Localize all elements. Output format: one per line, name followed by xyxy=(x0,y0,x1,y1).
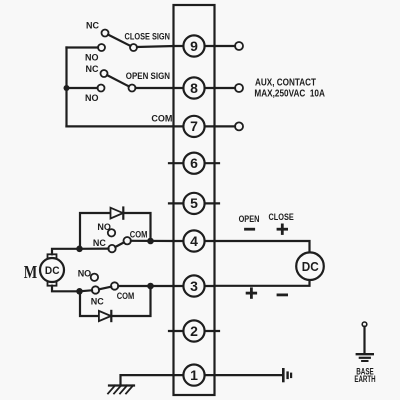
terminal 4 xyxy=(183,230,204,251)
wire terminal 9 row xyxy=(174,45,215,47)
terminal 3 xyxy=(183,275,204,296)
svg-text:NC: NC xyxy=(91,296,104,306)
label plus under CLOSE xyxy=(277,224,288,235)
limit switch S2 lever xyxy=(107,75,129,86)
wire aux terminal 7 to contact xyxy=(215,125,236,127)
wire COM to terminal 7 xyxy=(67,125,174,127)
switch S4: NC contact xyxy=(92,286,99,293)
limit switch S1 close: NC contact xyxy=(102,30,109,37)
switch S4: NO contact xyxy=(91,274,98,281)
wire diode branch lower xyxy=(80,286,151,316)
wire S2 common to terminal 8 xyxy=(136,87,174,89)
wire terminal 4 row xyxy=(174,240,215,242)
node B junction xyxy=(76,288,83,295)
wire terminal 1 to frame earth xyxy=(215,374,283,376)
diode D2 xyxy=(99,311,111,321)
aux contact pin terminal 7 xyxy=(235,122,243,130)
svg-text:OPEN: OPEN xyxy=(239,214,260,225)
wire terminal 1 to chassis ground xyxy=(121,375,174,385)
svg-text:COM: COM xyxy=(130,229,148,239)
wire terminal 5 stubs xyxy=(169,202,219,204)
junction node D xyxy=(147,283,154,290)
svg-text:NC: NC xyxy=(93,238,106,248)
label minus under terminal3 wire xyxy=(277,294,288,297)
wire terminal 2 stubs xyxy=(169,330,219,332)
wire terminal 7 row xyxy=(174,125,215,127)
wire diode branch upper xyxy=(80,213,151,249)
svg-text:MAX,250VAC 10A: MAX,250VAC 10A xyxy=(254,88,325,99)
wire S3 COM to terminal 4 xyxy=(131,240,174,242)
svg-text:NC: NC xyxy=(86,64,99,74)
label plus under terminal3 wire xyxy=(246,287,257,298)
terminal strip body xyxy=(174,5,215,395)
terminal 8 xyxy=(183,77,204,98)
svg-text:COM: COM xyxy=(117,291,135,301)
frame earth symbol xyxy=(283,369,291,381)
svg-text:8: 8 xyxy=(190,80,198,96)
wire terminal 1 row xyxy=(174,374,215,376)
svg-text:6: 6 xyxy=(190,155,198,171)
limit switch S2 open: NC contact xyxy=(101,70,108,77)
wire left common bus vertical xyxy=(65,48,67,127)
wire NO2 to bus xyxy=(67,87,98,89)
svg-text:1: 1 xyxy=(190,367,198,383)
wire S4 COM to terminal 3 xyxy=(118,285,173,287)
junction bus/NO2 xyxy=(64,85,70,91)
wire terminal 6 stubs xyxy=(169,162,219,164)
svg-text:NO: NO xyxy=(85,93,99,103)
wire terminal 3 row xyxy=(174,285,215,287)
label minus under OPEN xyxy=(244,228,255,231)
wire aux terminal 8 to contact xyxy=(215,87,236,89)
chassis ground symbol xyxy=(108,386,134,394)
svg-text:DC: DC xyxy=(302,259,319,274)
limit switch S1 close: common contact xyxy=(130,44,137,51)
switch S3: COM contact xyxy=(124,237,131,244)
motor M brush top xyxy=(48,254,57,258)
switch S4 lever xyxy=(99,287,111,290)
aux contact pin terminal 8 xyxy=(235,84,243,92)
wire terminal 3 to DC supply minus xyxy=(215,280,310,286)
svg-text:CLOSE: CLOSE xyxy=(269,212,295,223)
base earth electrode xyxy=(357,322,373,361)
svg-text:9: 9 xyxy=(190,38,198,54)
svg-text:NC: NC xyxy=(86,21,99,31)
limit switch S1 close: NO contact xyxy=(98,44,105,51)
terminal 5 xyxy=(183,193,204,214)
svg-text:AUX, CONTACT: AUX, CONTACT xyxy=(255,78,316,89)
wire motor top to node A xyxy=(52,249,80,255)
wire S1 common to terminal 9 xyxy=(137,46,174,47)
switch S3 lever xyxy=(115,242,124,247)
limit switch S2 open: common contact xyxy=(129,85,136,92)
svg-text:NO: NO xyxy=(97,222,111,232)
limit switch S1 lever xyxy=(108,35,130,46)
svg-text:CLOSE SIGN: CLOSE SIGN xyxy=(125,32,171,43)
switch S3: NC contact xyxy=(108,245,115,252)
wire node A to S3 NC xyxy=(80,248,109,250)
switch S3: NO contact xyxy=(108,229,115,236)
diode D1 xyxy=(111,208,124,219)
terminal 6 xyxy=(183,153,204,174)
wire node B to S4 NC xyxy=(80,290,93,291)
svg-text:M: M xyxy=(24,262,38,282)
motor M body xyxy=(40,258,64,282)
wire aux terminal 9 to contact xyxy=(215,45,236,47)
svg-text:4: 4 xyxy=(190,233,198,249)
svg-text:3: 3 xyxy=(190,278,198,294)
terminal 1 xyxy=(183,365,204,386)
terminal 9 xyxy=(183,35,204,56)
svg-text:7: 7 xyxy=(190,118,198,134)
svg-text:DC: DC xyxy=(45,265,60,277)
terminal 2 xyxy=(183,320,204,341)
motor M brush bottom xyxy=(48,282,57,286)
DC power source PS1 xyxy=(296,252,324,280)
svg-text:EARTH: EARTH xyxy=(354,374,375,384)
wire terminal 8 row xyxy=(174,87,215,89)
svg-text:NO: NO xyxy=(85,53,99,63)
svg-text:5: 5 xyxy=(190,195,198,211)
aux contact pin terminal 9 xyxy=(235,42,243,50)
wire motor bottom to node B xyxy=(52,286,80,292)
terminal 7 xyxy=(183,116,204,137)
wire terminal 4 to DC supply plus xyxy=(215,241,310,252)
limit switch S2 open: NO contact xyxy=(98,85,105,92)
node A junction xyxy=(76,246,83,253)
svg-text:2: 2 xyxy=(190,323,198,339)
switch S4: COM contact xyxy=(111,282,118,289)
junction node C xyxy=(147,238,154,245)
svg-text:COM: COM xyxy=(151,114,172,124)
wire NO1 to bus xyxy=(67,46,99,48)
svg-text:OPEN SIGN: OPEN SIGN xyxy=(126,71,170,82)
svg-text:NO: NO xyxy=(78,269,92,279)
